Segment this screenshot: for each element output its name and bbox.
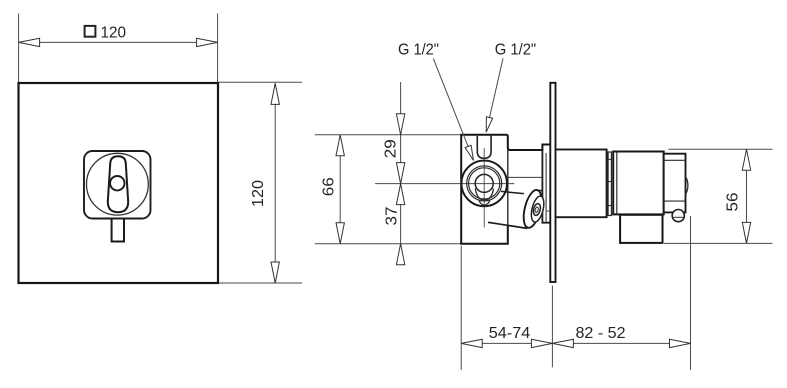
clip ring strip (608, 152, 611, 216)
body face line (507, 150, 509, 225)
svg-text:120: 120 (250, 180, 267, 207)
outlet flange ellipse (520, 188, 545, 229)
inlet inner circle (475, 174, 493, 192)
end cap bulge (686, 177, 688, 195)
outlet lower silhouette (488, 222, 527, 228)
end cap (side) (664, 154, 686, 213)
inlet port center vertical line (483, 148, 485, 227)
dimension line 120 right (274, 83, 276, 283)
outlet face ellipse (529, 195, 546, 223)
lever hub circle (110, 176, 124, 190)
G1/2 top port (U notch) (477, 136, 491, 159)
cartridge sleeve (556, 150, 607, 218)
body step detail line (508, 176, 543, 178)
handle block (side) (613, 152, 664, 215)
limit stop button (672, 210, 684, 222)
dimension line 120 top (19, 41, 218, 43)
outlet bore ellipse (532, 203, 541, 216)
handle stem (below rosette) (112, 211, 124, 242)
collar inner edge (545, 153, 547, 222)
dimension "square 120" extension lines (19, 14, 218, 83)
arrowhead right (197, 38, 218, 46)
dimension 29/37 line (400, 82, 402, 265)
bottom dimension line (461, 342, 690, 344)
extension line bottom edge (315, 243, 462, 245)
bottom dimension extension lines (460, 246, 462, 370)
leader 1 (433, 58, 468, 146)
svg-text:82 - 52: 82 - 52 (576, 325, 626, 342)
arrowhead down (271, 262, 279, 283)
outlet upper silhouette (501, 191, 524, 193)
svg-text:37: 37 (384, 206, 401, 225)
svg-text:G 1/2": G 1/2" (495, 42, 537, 59)
handle rosette (rounded square) (84, 151, 151, 219)
lever handle (front) (108, 156, 128, 212)
outlet top-right silhouette (539, 189, 542, 192)
cartridge arcs (475, 189, 493, 201)
dimension "120" height extension lines (219, 82, 302, 283)
leader 2 (490, 58, 504, 117)
inlet boss outer circle (461, 161, 507, 207)
svg-text:29: 29 (383, 139, 400, 158)
extension line top edge (315, 134, 462, 136)
dimension 56 extension lines (668, 148, 772, 150)
wall plate (side) (550, 83, 555, 282)
outlet bore inner (535, 207, 539, 213)
svg-text:120: 120 (101, 25, 127, 42)
valve body outline (461, 135, 550, 244)
svg-text:66: 66 (321, 177, 338, 196)
arrowhead left (19, 38, 40, 46)
collar detail line (546, 210, 550, 212)
arrowhead up (271, 83, 279, 104)
dimension 66 line (339, 135, 341, 244)
mounting collar at plate (542, 150, 550, 223)
front wall plate (square escutcheon) (19, 83, 219, 283)
svg-text:54-74: 54-74 (489, 325, 531, 342)
lever (side, pointing down) (620, 215, 662, 243)
centerline inlet (375, 183, 514, 185)
rosette circle (87, 153, 149, 215)
handle block inner edge (616, 152, 618, 215)
inlet ring circles (467, 166, 502, 201)
square symbol (85, 26, 96, 37)
svg-text:56: 56 (725, 192, 742, 211)
dimension 56 line (746, 149, 748, 243)
svg-text:G 1/2": G 1/2" (398, 42, 439, 59)
